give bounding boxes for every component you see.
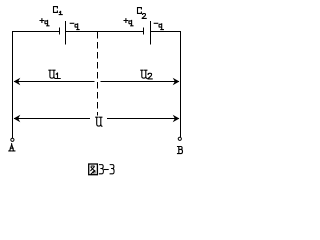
label A: [9, 144, 15, 151]
label -q of C1: q: [75, 24, 79, 30]
arrowhead U1 (left): [14, 78, 21, 86]
label -q of C1: minus sign: [70, 22, 74, 24]
capacitor C1 left plate: [59, 28, 61, 35]
label -q of C2: minus sign: [154, 22, 158, 24]
wire left wall: [12, 31, 14, 138]
caption dash: [104, 169, 108, 171]
label U2: subscript 2: [148, 73, 152, 79]
capacitor C1 right plate: [65, 21, 67, 45]
caption glyph tu (figure): [89, 164, 98, 175]
label B: [178, 147, 183, 154]
wire top middle segment: [66, 31, 143, 33]
capacitor C2 right plate: [150, 21, 152, 45]
arrowhead U (right): [173, 115, 180, 123]
arrowhead U2 (right): [173, 78, 180, 86]
terminal A circle: [11, 138, 14, 141]
wire top-right segment: [151, 31, 181, 33]
label -q of C2: q: [159, 24, 163, 30]
caption text 3 (second): [110, 165, 114, 174]
label C2: letter C: [138, 8, 142, 14]
terminal B circle: [178, 137, 181, 140]
label U (total): [96, 117, 102, 126]
label U1: subscript 1: [56, 73, 60, 78]
capacitor C2 left plate: [143, 28, 145, 35]
caption text 3 (first): [99, 165, 114, 174]
node: dashed midline: [97, 32, 99, 116]
label U1: letter U: [49, 70, 55, 78]
label C1: subscript 1: [59, 11, 62, 14]
arrow U2 line: [101, 81, 180, 83]
wire top-left segment: [12, 31, 59, 33]
arrow U left segment: [14, 118, 90, 120]
label U2: letter U: [141, 70, 147, 78]
arrow U1 line: [14, 81, 95, 83]
label +q of C1: q: [45, 20, 49, 25]
wire right wall: [180, 31, 182, 137]
label +q of C1: plus sign: [40, 19, 44, 23]
label +q of C2: q: [129, 20, 133, 25]
arrowhead U (left): [14, 115, 21, 123]
label C2: subscript 2: [142, 14, 146, 19]
label +q of C2: plus sign: [124, 19, 128, 23]
arrow U right segment: [107, 118, 179, 120]
label C1: letter C: [54, 7, 58, 13]
